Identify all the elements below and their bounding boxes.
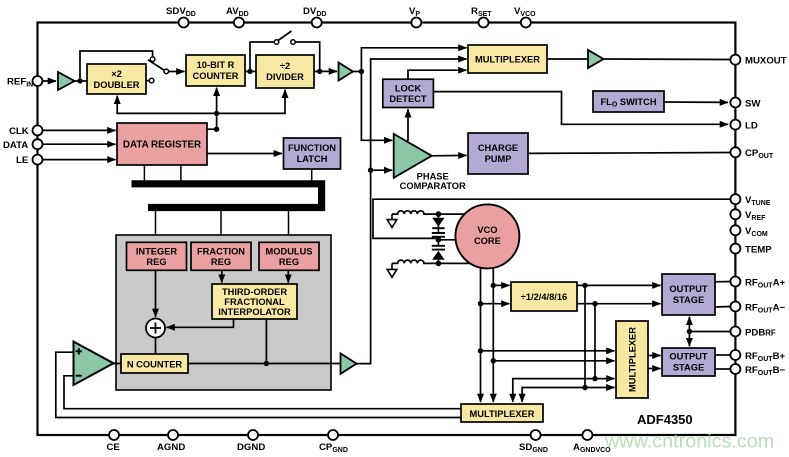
pin DVDD (303, 6, 326, 28)
svg-text:MODULUS: MODULUS (266, 247, 313, 257)
junction VCO B to vmux (491, 358, 496, 363)
junction tank bottom (436, 261, 442, 267)
pin VTUNE (730, 194, 770, 207)
svg-text:DATA: DATA (3, 140, 28, 151)
wire phase comparator to lock detect (407, 109, 409, 141)
svg-text:MUXOUT: MUXOUT (745, 56, 787, 67)
svg-text:PUMP: PUMP (485, 154, 512, 164)
svg-text:COMPARATOR: COMPARATOR (400, 181, 466, 191)
svg-text:FRACTIONAL: FRACTIONAL (224, 297, 285, 307)
svg-text:÷2: ÷2 (280, 61, 290, 71)
pin CPOUT (730, 147, 773, 160)
pin RSET (471, 6, 492, 28)
junction VCO B to divider (491, 283, 496, 288)
junction divider output (317, 69, 322, 74)
wire divider out B down (594, 304, 596, 379)
wire N counter to buffer (188, 363, 340, 365)
wire VCO output B down to bottom mux (492, 268, 494, 403)
switch S1 contact c (doubler out) (149, 78, 154, 83)
pin SDGND (519, 430, 548, 454)
buffer U2 (R path) (339, 63, 354, 81)
inductor L1 (392, 211, 465, 214)
wire buffer U3 to MUXOUT (604, 58, 731, 61)
block divider: /2 DIVIDER (256, 55, 314, 88)
svg-text:DATA REGISTER: DATA REGISTER (123, 140, 201, 151)
wire reference to top multiplexer (361, 48, 466, 72)
bus thick data bus (132, 184, 322, 208)
pin CE (107, 430, 121, 453)
wire VCO B to output divider (493, 284, 509, 286)
block fraction reg: FRACTION REG (191, 242, 251, 270)
pin RFOUTA+ (730, 277, 785, 290)
wire VCO output A down to bottom mux (480, 267, 482, 402)
junction data register out (214, 127, 219, 132)
pin DGND (237, 430, 265, 453)
switch S1 pole b (164, 69, 169, 74)
junction doubler input (77, 78, 82, 83)
wire divider bypass (250, 42, 274, 71)
svg-text:REG: REG (146, 257, 166, 267)
svg-text:LATCH: LATCH (297, 154, 328, 164)
wire PDBRF (689, 331, 730, 333)
wire PDBRF to output stage B (688, 332, 690, 347)
block sigma-delta modulator (gray box) (116, 235, 331, 390)
block integer reg: INTEGER REG (127, 242, 187, 270)
wire divider out A down (584, 285, 586, 387)
svg-text:SW: SW (745, 98, 761, 109)
pin TEMP (730, 244, 772, 256)
buffer U1 (reference input) (58, 72, 75, 90)
wire data register to R counter (207, 88, 217, 130)
wire feedback inner (mux to minus input) (64, 376, 461, 409)
wire buffer U2 to junction (353, 71, 364, 73)
wire output stage A to RFOUTA+ (715, 281, 730, 283)
svg-text:ADF4350: ADF4350 (637, 412, 693, 427)
svg-text:FRACTION: FRACTION (197, 247, 245, 257)
block output divider: /1/2/4/8/16 (511, 282, 577, 311)
wire divider out B to output stage A (577, 303, 661, 305)
svg-text:OUTPUT: OUTPUT (669, 284, 708, 294)
junction counters branch (214, 111, 219, 116)
pin AGNDVCO (573, 430, 611, 454)
svg-text:VCO: VCO (477, 225, 497, 235)
varactor D2 (432, 251, 444, 264)
svg-text:CLK: CLK (9, 126, 29, 137)
pin CLK (9, 125, 43, 137)
wire VCO A to output divider (481, 303, 510, 305)
wire output stage B to RFOUTB- (715, 368, 730, 370)
junction tank top (436, 211, 442, 217)
ground (tank top) (387, 214, 397, 227)
svg-text:CE: CE (107, 442, 121, 453)
block modulus reg: MODULUS REG (259, 242, 319, 270)
wire branch to doubler (117, 96, 216, 114)
svg-text:OUTPUT: OUTPUT (669, 352, 708, 362)
block R counter: 10-BIT R COUNTER (186, 55, 245, 86)
svg-text:AGND: AGND (157, 442, 185, 453)
wire vertical mux to output stage B in2 (648, 368, 661, 370)
wire function latch stub to bus (311, 169, 313, 181)
wire integer reg to adder (155, 270, 157, 317)
svg-text:REG: REG (279, 257, 299, 267)
junction divider B low (592, 376, 597, 381)
svg-text:FLO SWITCH: FLO SWITCH (600, 97, 656, 109)
pin RFOUTB+ (730, 350, 785, 363)
wire doubler output stub (146, 80, 149, 82)
pin CPGND (319, 430, 348, 454)
wire branch to divider (217, 90, 285, 114)
junction divider out A (582, 283, 587, 288)
capacitor C1 (432, 233, 445, 246)
wire DATA to data register (43, 143, 116, 145)
switch S1 lever (148, 60, 164, 70)
pin AGND (157, 430, 185, 453)
pin MUXOUT (730, 55, 786, 67)
wire charge pump to CPOUT (528, 152, 730, 155)
pin SDVDD (166, 6, 196, 28)
pin LD (730, 120, 757, 132)
svg-text:CHARGE: CHARGE (478, 143, 518, 153)
wire VTUNE to varactor node (373, 199, 730, 238)
block interpolator: THIRD-ORDER FRACTIONAL INTERPOLATOR (212, 284, 297, 319)
wire top multiplexer to buffer (547, 58, 588, 60)
wire varactor mid node to VCO core (438, 239, 456, 241)
svg-text:TEMP: TEMP (745, 244, 772, 255)
pin VREF (730, 209, 766, 222)
svg-text:THIRD-ORDER: THIRD-ORDER (222, 287, 287, 297)
wire lock detect to LD pin (433, 92, 728, 125)
svg-text:÷1/2/4/8/16: ÷1/2/4/8/16 (521, 292, 567, 302)
junction VCO A to vmux (478, 348, 483, 353)
wire divider A to bottom mux (522, 388, 585, 403)
pin REFIN (7, 76, 43, 89)
pin RFOUTA- (730, 302, 785, 315)
svg-text:REG: REG (211, 257, 231, 267)
wire adder to N counter (155, 338, 157, 355)
svg-text:LOCK: LOCK (395, 84, 422, 94)
svg-text:PDBRF: PDBRF (745, 327, 776, 338)
wire modulus reg to interpolator (287, 270, 289, 282)
svg-text:INTEGER: INTEGER (136, 247, 178, 257)
block N counter: N COUNTER (121, 354, 188, 373)
pin DATA (3, 139, 43, 151)
varactor D1 (432, 214, 444, 233)
switch S2 lever (278, 31, 292, 41)
buffer U6 (N counter output) (341, 353, 357, 374)
wire feedback outer (mux to plus input) (56, 352, 461, 417)
block doubler: x2 DOUBLER (87, 64, 146, 94)
svg-text:MULTIPLEXER: MULTIPLEXER (628, 327, 638, 392)
wire reference down to phase comparator (361, 72, 392, 141)
svg-text:FUNCTION: FUNCTION (288, 143, 336, 153)
junction divider input (247, 69, 252, 74)
wire VCO A to vertical mux (481, 350, 615, 352)
wire fraction reg to interpolator (221, 270, 223, 282)
wire output stage B to RFOUTB+ (715, 354, 730, 356)
capacitor C2 (432, 246, 445, 250)
VCO core circle (455, 204, 519, 268)
block function latch: FUNCTION LATCH (284, 138, 341, 169)
wire comparator to N counter (114, 363, 122, 365)
svg-text:COUNTER: COUNTER (193, 71, 239, 81)
wire output stage A to RFOUTA- (715, 306, 730, 309)
chip border frame (38, 23, 736, 436)
svg-text:DOUBLER: DOUBLER (94, 80, 140, 90)
wire divider to buffer (314, 70, 337, 72)
wire divider out A to output stage A (577, 284, 661, 286)
comparator U5 (N counter input) (74, 342, 114, 385)
svg-text:STAGE: STAGE (673, 363, 704, 373)
ground (tank bottom) (387, 263, 397, 277)
wire CLK to data register (43, 129, 116, 131)
svg-text:DIVIDER: DIVIDER (266, 72, 304, 82)
wire bus stub to fraction reg (220, 210, 222, 243)
block charge pump: CHARGE PUMP (468, 133, 528, 174)
pin VCOM (730, 225, 768, 238)
wire bus stub to modulus reg (288, 210, 290, 243)
block FLo switch: FLO SWITCH (593, 91, 664, 112)
switch S1 contact a (150, 57, 155, 62)
wire phase comparator to charge pump (432, 154, 467, 156)
block lock detect: LOCK DETECT (383, 79, 434, 107)
svg-text:N COUNTER: N COUNTER (127, 360, 183, 370)
pin AVDD (226, 6, 249, 28)
wire switch to R counter (169, 71, 185, 73)
svg-text:INTERPOLATOR: INTERPOLATOR (218, 307, 291, 317)
svg-text:STAGE: STAGE (673, 295, 704, 305)
svg-text:www.cntronics.com: www.cntronics.com (604, 431, 774, 453)
junction N path (368, 168, 373, 173)
block vertical multiplexer: MULTIPLEXER (616, 321, 648, 398)
pin RFOUTB- (730, 364, 785, 377)
wire REFIN to input buffer (43, 80, 57, 82)
wire buffer U6 up to mux and phase comparator (357, 59, 467, 364)
wire data register stub 2 to bus (180, 165, 182, 181)
svg-text:×2: ×2 (111, 69, 122, 79)
op-amp phase comparator (394, 134, 466, 191)
svg-text:DETECT: DETECT (389, 94, 427, 104)
wire buffer to doubler (75, 80, 88, 82)
junction PDBRF (687, 329, 692, 334)
wire interpolator down to N counter output (265, 319, 267, 364)
block data register: DATA REGISTER (117, 123, 207, 165)
junction N counter output (264, 361, 269, 366)
svg-text:10-BIT R: 10-BIT R (197, 60, 235, 70)
junction divider A low (582, 385, 587, 390)
block output stage A: OUTPUT STAGE (662, 274, 715, 315)
junction divider out B (592, 301, 597, 306)
pin LE (16, 155, 43, 167)
wire N path to phase comparator (371, 169, 393, 171)
adder (summing node) (146, 319, 165, 338)
svg-text:MULTIPLEXER: MULTIPLEXER (470, 409, 535, 419)
svg-text:LE: LE (16, 155, 29, 166)
svg-text:LD: LD (745, 120, 758, 131)
pin VVCO (514, 6, 536, 28)
wire data register stub 1 to bus (143, 165, 145, 181)
wire bus stub to integer reg (155, 210, 157, 243)
wire LE to data register (43, 159, 116, 161)
wire interpolator to adder (167, 319, 234, 327)
wire divider A to vertical mux (585, 387, 615, 389)
wire VCO B to vertical mux (493, 360, 614, 362)
wire lock detect to top multiplexer (408, 70, 467, 79)
junction reference node (359, 69, 364, 74)
wire data register to function latch (207, 153, 282, 155)
junction tank mid (436, 237, 442, 243)
wire divider B to vertical mux (595, 378, 615, 380)
pin VP (409, 6, 421, 28)
inductor L2 (392, 260, 471, 263)
switch S2 contact a (274, 40, 279, 45)
wire R counter to divider (245, 70, 256, 72)
svg-text:CORE: CORE (474, 236, 501, 246)
svg-text:DGND: DGND (237, 442, 265, 453)
wire FLo switch to SW pin (664, 101, 728, 103)
svg-text:PHASE: PHASE (417, 172, 449, 182)
pin SW (730, 98, 761, 110)
wire divider B to bottom mux (513, 379, 595, 402)
block multiplexer top: MULTIPLEXER (468, 45, 547, 73)
block output stage B: OUTPUT STAGE (662, 348, 715, 376)
switch S2 contact b (291, 40, 296, 45)
wire vertical mux to output stage B in1 (648, 355, 661, 357)
wire divider bypass right (296, 42, 320, 69)
buffer U3 (muxout) (588, 50, 604, 68)
svg-text:MULTIPLEXER: MULTIPLEXER (475, 55, 540, 65)
wire PDBRF to output stage A (688, 317, 690, 332)
block bottom multiplexer: MULTIPLEXER (461, 404, 543, 422)
junction VCO A to divider (478, 301, 483, 306)
pin PDBRF (730, 327, 775, 339)
wire doubler bypass (80, 51, 153, 81)
